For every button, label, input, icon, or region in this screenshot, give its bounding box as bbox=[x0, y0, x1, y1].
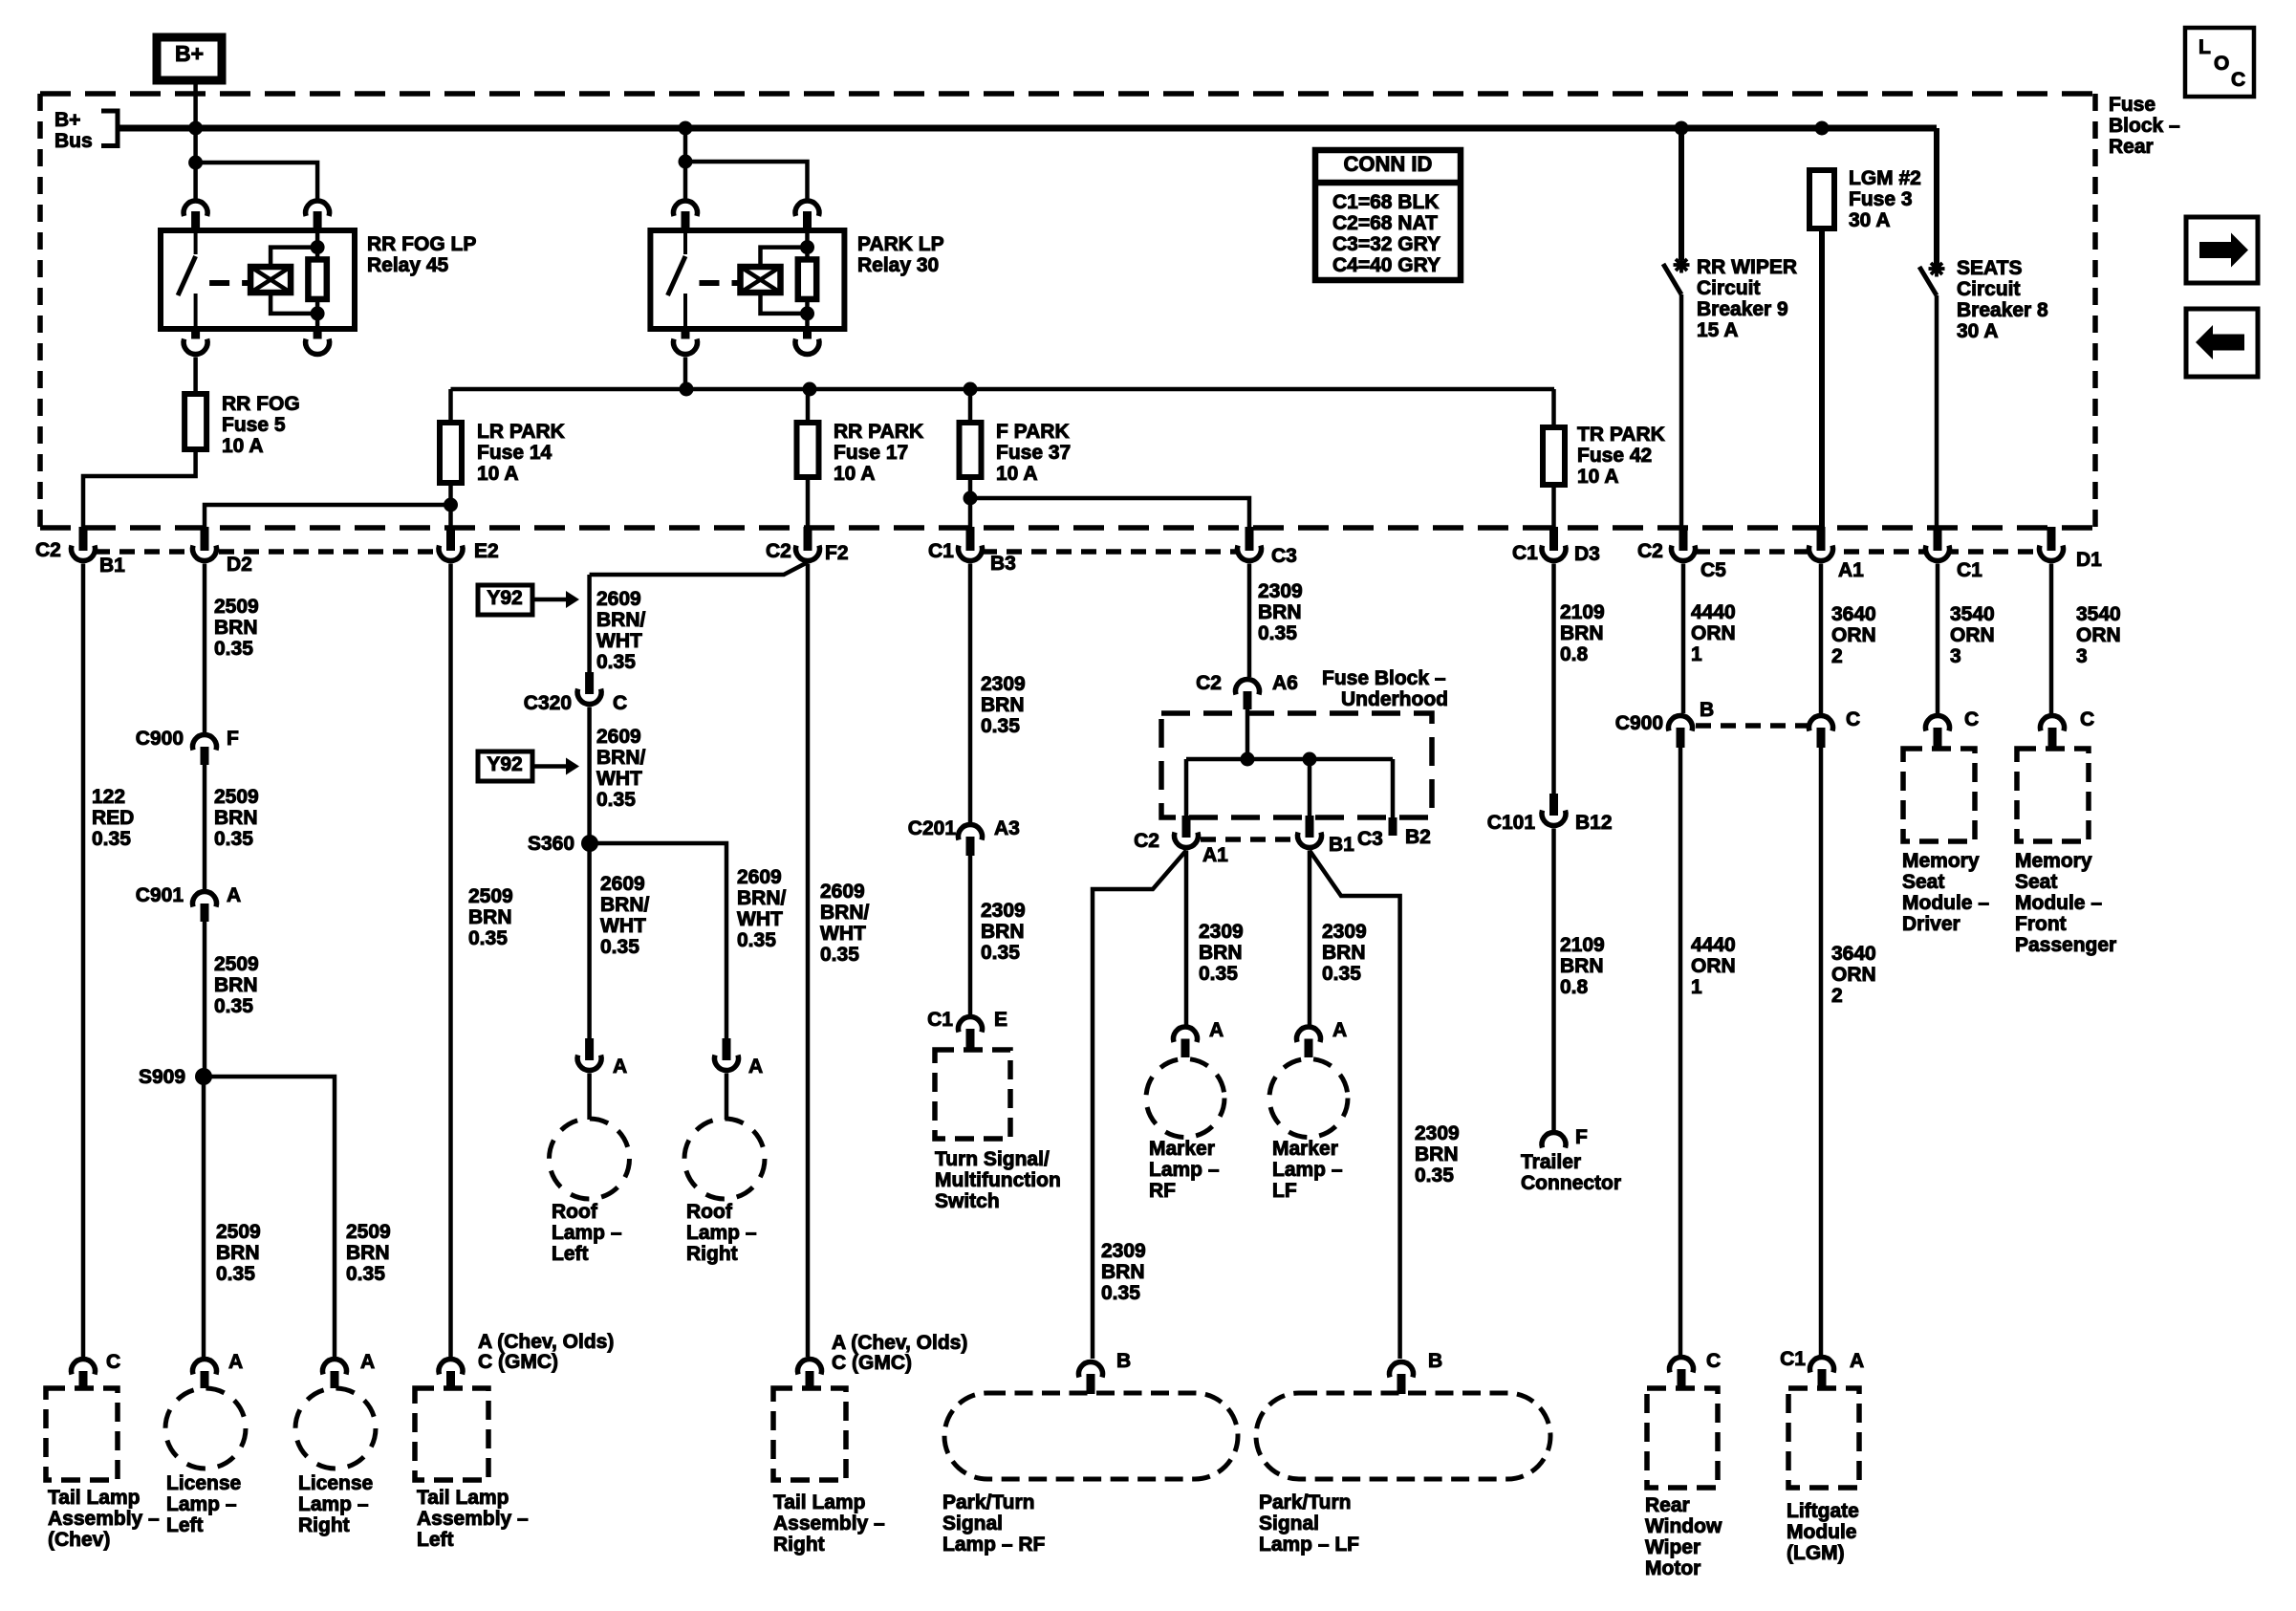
svg-text:BRN/: BRN/ bbox=[737, 887, 786, 909]
svg-text:C1=68 BLK: C1=68 BLK bbox=[1332, 191, 1439, 213]
svg-text:B1: B1 bbox=[1329, 834, 1354, 856]
svg-text:2509: 2509 bbox=[468, 885, 513, 907]
svg-text:LF: LF bbox=[1272, 1180, 1297, 1202]
svg-text:0.8: 0.8 bbox=[1560, 976, 1589, 998]
svg-text:2: 2 bbox=[1831, 985, 1843, 1007]
svg-text:2609: 2609 bbox=[596, 726, 641, 748]
svg-text:Lamp –: Lamp – bbox=[1149, 1159, 1220, 1181]
svg-text:Liftgate: Liftgate bbox=[1787, 1500, 1859, 1522]
svg-text:ORN: ORN bbox=[1831, 964, 1876, 986]
svg-text:2509: 2509 bbox=[214, 953, 259, 975]
svg-text:F2: F2 bbox=[825, 542, 849, 564]
svg-text:Right: Right bbox=[773, 1534, 825, 1556]
svg-text:C: C bbox=[2231, 69, 2245, 91]
svg-text:2: 2 bbox=[1831, 645, 1843, 667]
svg-text:2309: 2309 bbox=[981, 900, 1026, 922]
svg-text:S360: S360 bbox=[528, 833, 574, 855]
svg-text:0.35: 0.35 bbox=[1101, 1282, 1140, 1304]
svg-text:ORN: ORN bbox=[1950, 624, 1995, 646]
svg-text:BRN: BRN bbox=[468, 906, 512, 928]
svg-text:C1: C1 bbox=[1780, 1348, 1806, 1370]
svg-text:B: B bbox=[1700, 699, 1714, 721]
svg-text:3: 3 bbox=[2076, 645, 2088, 667]
svg-text:RR FOG: RR FOG bbox=[222, 393, 300, 415]
svg-text:B+: B+ bbox=[54, 109, 80, 131]
svg-text:2309: 2309 bbox=[1415, 1122, 1460, 1144]
svg-text:0.35: 0.35 bbox=[820, 944, 859, 966]
svg-text:Front: Front bbox=[2015, 913, 2067, 935]
svg-text:L: L bbox=[2199, 36, 2211, 58]
svg-text:Relay 30: Relay 30 bbox=[857, 254, 939, 276]
svg-text:3: 3 bbox=[1950, 645, 1961, 667]
svg-text:WHT: WHT bbox=[600, 915, 646, 937]
svg-text:C: C bbox=[2080, 708, 2094, 730]
svg-text:O: O bbox=[2214, 53, 2229, 75]
svg-text:Module –: Module – bbox=[2015, 892, 2102, 914]
svg-text:Assembly –: Assembly – bbox=[417, 1508, 529, 1530]
svg-text:Rear: Rear bbox=[2109, 136, 2154, 158]
svg-text:Motor: Motor bbox=[1645, 1557, 1700, 1579]
svg-text:2509: 2509 bbox=[216, 1221, 261, 1243]
svg-text:Module: Module bbox=[1787, 1521, 1857, 1543]
svg-text:10 A: 10 A bbox=[996, 463, 1038, 485]
svg-text:Fuse 14: Fuse 14 bbox=[477, 442, 552, 464]
svg-text:B12: B12 bbox=[1575, 812, 1613, 834]
svg-text:Switch: Switch bbox=[935, 1190, 1000, 1212]
svg-text:CONN ID: CONN ID bbox=[1344, 152, 1433, 176]
svg-text:0.35: 0.35 bbox=[600, 936, 639, 958]
svg-text:3640: 3640 bbox=[1831, 943, 1876, 965]
svg-text:C1: C1 bbox=[1512, 542, 1538, 564]
svg-text:E2: E2 bbox=[474, 540, 499, 562]
svg-text:Block –: Block – bbox=[2109, 115, 2180, 137]
svg-text:Breaker 8: Breaker 8 bbox=[1957, 299, 2048, 321]
svg-text:2509: 2509 bbox=[214, 596, 259, 618]
svg-text:BRN: BRN bbox=[216, 1242, 260, 1264]
svg-text:A: A bbox=[1209, 1019, 1224, 1041]
svg-text:2309: 2309 bbox=[1199, 921, 1244, 943]
svg-text:Memory: Memory bbox=[1902, 850, 1980, 872]
svg-text:PARK LP: PARK LP bbox=[857, 233, 944, 255]
svg-text:C1: C1 bbox=[1957, 559, 1982, 581]
svg-text:Park/Turn: Park/Turn bbox=[942, 1491, 1034, 1513]
svg-text:0.35: 0.35 bbox=[92, 828, 131, 850]
svg-text:BRN: BRN bbox=[1322, 942, 1366, 964]
svg-text:2309: 2309 bbox=[981, 673, 1026, 695]
svg-text:B2: B2 bbox=[1405, 826, 1431, 848]
svg-text:WHT: WHT bbox=[596, 768, 642, 790]
svg-text:30 A: 30 A bbox=[1849, 209, 1891, 231]
svg-text:3640: 3640 bbox=[1831, 603, 1876, 625]
svg-text:A: A bbox=[1850, 1350, 1864, 1372]
svg-text:0.35: 0.35 bbox=[1415, 1165, 1454, 1186]
svg-text:BRN/: BRN/ bbox=[596, 609, 645, 631]
svg-text:Circuit: Circuit bbox=[1957, 278, 2021, 300]
svg-text:B: B bbox=[1428, 1350, 1442, 1372]
svg-text:S909: S909 bbox=[139, 1066, 185, 1088]
svg-text:2609: 2609 bbox=[737, 866, 782, 888]
svg-text:F: F bbox=[227, 728, 239, 750]
svg-text:Window: Window bbox=[1645, 1515, 1722, 1537]
svg-text:1: 1 bbox=[1691, 643, 1702, 665]
svg-text:(Chev): (Chev) bbox=[48, 1529, 110, 1551]
svg-text:2509: 2509 bbox=[346, 1221, 391, 1243]
svg-text:SEATS: SEATS bbox=[1957, 257, 2022, 279]
svg-text:Memory: Memory bbox=[2015, 850, 2092, 872]
svg-text:E: E bbox=[994, 1009, 1007, 1031]
svg-text:BRN: BRN bbox=[346, 1242, 390, 1264]
svg-text:Roof: Roof bbox=[552, 1201, 598, 1223]
svg-text:WHT: WHT bbox=[737, 908, 783, 930]
svg-text:B3: B3 bbox=[990, 553, 1016, 575]
svg-text:A3: A3 bbox=[994, 817, 1020, 839]
svg-text:2309: 2309 bbox=[1258, 580, 1303, 602]
svg-text:2309: 2309 bbox=[1322, 921, 1367, 943]
svg-text:Tail Lamp: Tail Lamp bbox=[417, 1487, 509, 1509]
svg-text:C: C bbox=[1846, 708, 1860, 730]
svg-text:10 A: 10 A bbox=[222, 435, 264, 457]
svg-text:Marker: Marker bbox=[1272, 1138, 1338, 1160]
svg-text:10 A: 10 A bbox=[1577, 466, 1619, 488]
svg-text:Assembly –: Assembly – bbox=[48, 1508, 160, 1530]
svg-text:3540: 3540 bbox=[1950, 603, 1995, 625]
svg-text:Lamp – RF: Lamp – RF bbox=[942, 1534, 1046, 1556]
svg-text:10 A: 10 A bbox=[834, 463, 876, 485]
svg-text:Left: Left bbox=[417, 1529, 454, 1551]
svg-text:D3: D3 bbox=[1574, 543, 1600, 565]
svg-text:Fuse 42: Fuse 42 bbox=[1577, 445, 1652, 467]
svg-text:Driver: Driver bbox=[1902, 913, 1960, 935]
svg-text:0.35: 0.35 bbox=[596, 789, 636, 811]
svg-text:Tail Lamp: Tail Lamp bbox=[48, 1487, 140, 1509]
svg-text:0.35: 0.35 bbox=[981, 942, 1020, 964]
svg-text:Rear: Rear bbox=[1645, 1494, 1690, 1516]
svg-text:ORN: ORN bbox=[2076, 624, 2121, 646]
svg-text:Lamp –: Lamp – bbox=[1272, 1159, 1343, 1181]
svg-text:A: A bbox=[227, 884, 241, 906]
svg-text:A: A bbox=[613, 1056, 627, 1078]
svg-text:Fuse 37: Fuse 37 bbox=[996, 442, 1071, 464]
svg-text:Left: Left bbox=[166, 1514, 204, 1536]
svg-text:C201: C201 bbox=[908, 817, 957, 839]
svg-text:BRN: BRN bbox=[1560, 955, 1604, 977]
svg-text:BRN: BRN bbox=[214, 807, 258, 829]
svg-text:A1: A1 bbox=[1202, 844, 1228, 866]
svg-text:B+: B+ bbox=[175, 41, 204, 66]
svg-text:2609: 2609 bbox=[600, 873, 645, 895]
svg-text:Seat: Seat bbox=[1902, 871, 1944, 893]
svg-text:0.35: 0.35 bbox=[214, 995, 253, 1017]
svg-text:C3: C3 bbox=[1271, 545, 1297, 567]
svg-text:Y92: Y92 bbox=[487, 587, 522, 609]
svg-text:Turn Signal/: Turn Signal/ bbox=[935, 1148, 1050, 1170]
svg-text:BRN: BRN bbox=[1199, 942, 1243, 964]
svg-text:ORN: ORN bbox=[1691, 955, 1736, 977]
svg-text:0.35: 0.35 bbox=[346, 1263, 385, 1285]
svg-text:Fuse: Fuse bbox=[2109, 94, 2155, 116]
svg-text:B: B bbox=[1116, 1350, 1131, 1372]
svg-text:30 A: 30 A bbox=[1957, 320, 1999, 342]
svg-text:RF: RF bbox=[1149, 1180, 1176, 1202]
svg-text:Signal: Signal bbox=[1259, 1513, 1319, 1535]
svg-text:BRN: BRN bbox=[981, 921, 1025, 943]
svg-text:A: A bbox=[1332, 1019, 1347, 1041]
svg-text:Lamp –: Lamp – bbox=[298, 1493, 369, 1515]
svg-text:Lamp –: Lamp – bbox=[552, 1222, 622, 1244]
svg-text:Marker: Marker bbox=[1149, 1138, 1215, 1160]
svg-text:A1: A1 bbox=[1838, 559, 1864, 581]
svg-text:0.35: 0.35 bbox=[214, 638, 253, 660]
svg-text:C3=32 GRY: C3=32 GRY bbox=[1332, 233, 1440, 255]
svg-text:TR PARK: TR PARK bbox=[1577, 424, 1665, 446]
svg-text:2109: 2109 bbox=[1560, 601, 1605, 623]
svg-text:BRN: BRN bbox=[214, 974, 258, 996]
svg-text:License: License bbox=[166, 1472, 241, 1494]
svg-text:C2: C2 bbox=[35, 539, 61, 561]
svg-text:0.35: 0.35 bbox=[214, 828, 253, 850]
svg-text:C5: C5 bbox=[1700, 559, 1726, 581]
svg-text:A6: A6 bbox=[1272, 672, 1298, 694]
svg-text:Left: Left bbox=[552, 1243, 589, 1265]
svg-text:BRN: BRN bbox=[1415, 1143, 1459, 1165]
svg-text:Trailer: Trailer bbox=[1521, 1151, 1581, 1173]
svg-text:Lamp – LF: Lamp – LF bbox=[1259, 1534, 1359, 1556]
svg-text:Passenger: Passenger bbox=[2015, 934, 2116, 956]
svg-text:Bus: Bus bbox=[54, 130, 93, 152]
svg-text:BRN: BRN bbox=[1258, 601, 1302, 623]
svg-text:D1: D1 bbox=[2076, 549, 2102, 571]
svg-text:LGM #2: LGM #2 bbox=[1849, 167, 1921, 189]
svg-text:C (GMC): C (GMC) bbox=[832, 1352, 912, 1374]
svg-text:Circuit: Circuit bbox=[1697, 277, 1761, 299]
svg-text:Fuse 17: Fuse 17 bbox=[834, 442, 908, 464]
svg-text:Underhood: Underhood bbox=[1341, 688, 1448, 710]
svg-text:C2: C2 bbox=[1637, 540, 1663, 562]
svg-text:Right: Right bbox=[298, 1514, 350, 1536]
svg-text:A: A bbox=[360, 1351, 375, 1373]
svg-text:2609: 2609 bbox=[820, 881, 865, 903]
svg-text:(LGM): (LGM) bbox=[1787, 1542, 1845, 1564]
svg-text:C3: C3 bbox=[1357, 828, 1383, 850]
svg-text:Y92: Y92 bbox=[487, 753, 522, 775]
svg-text:Connector: Connector bbox=[1521, 1172, 1621, 1194]
svg-text:C320: C320 bbox=[524, 692, 572, 714]
svg-text:C1: C1 bbox=[928, 540, 954, 562]
svg-text:4440: 4440 bbox=[1691, 601, 1736, 623]
svg-text:3540: 3540 bbox=[2076, 603, 2121, 625]
svg-text:WHT: WHT bbox=[596, 630, 642, 652]
svg-text:BRN: BRN bbox=[981, 694, 1025, 716]
svg-text:0.35: 0.35 bbox=[596, 651, 636, 673]
svg-text:Right: Right bbox=[686, 1243, 738, 1265]
svg-text:Seat: Seat bbox=[2015, 871, 2057, 893]
svg-text:0.8: 0.8 bbox=[1560, 643, 1589, 665]
svg-text:F: F bbox=[1575, 1126, 1588, 1148]
svg-text:RR PARK: RR PARK bbox=[834, 421, 923, 443]
svg-text:Lamp –: Lamp – bbox=[686, 1222, 757, 1244]
svg-text:RR WIPER: RR WIPER bbox=[1697, 256, 1797, 278]
svg-text:1: 1 bbox=[1691, 976, 1702, 998]
svg-text:Fuse Block –: Fuse Block – bbox=[1322, 667, 1446, 689]
svg-text:C4=40 GRY: C4=40 GRY bbox=[1332, 254, 1440, 276]
svg-text:C101: C101 bbox=[1487, 812, 1536, 834]
svg-text:0.35: 0.35 bbox=[737, 929, 776, 951]
svg-text:0.35: 0.35 bbox=[1258, 622, 1297, 644]
svg-text:Relay 45: Relay 45 bbox=[367, 254, 449, 276]
svg-text:C900: C900 bbox=[136, 728, 184, 750]
svg-text:4440: 4440 bbox=[1691, 934, 1736, 956]
svg-text:ORN: ORN bbox=[1691, 622, 1736, 644]
svg-text:10 A: 10 A bbox=[477, 463, 519, 485]
svg-text:Fuse 5: Fuse 5 bbox=[222, 414, 286, 436]
svg-text:2609: 2609 bbox=[596, 588, 641, 610]
svg-text:C2: C2 bbox=[766, 540, 791, 562]
svg-text:Lamp –: Lamp – bbox=[166, 1493, 237, 1515]
svg-text:BRN/: BRN/ bbox=[820, 902, 869, 924]
svg-text:BRN/: BRN/ bbox=[596, 747, 645, 769]
svg-text:122: 122 bbox=[92, 786, 125, 808]
svg-text:BRN: BRN bbox=[1560, 622, 1604, 644]
svg-text:0.35: 0.35 bbox=[216, 1263, 255, 1285]
svg-text:Wiper: Wiper bbox=[1645, 1536, 1700, 1558]
svg-text:0.35: 0.35 bbox=[981, 715, 1020, 737]
svg-text:ORN: ORN bbox=[1831, 624, 1876, 646]
svg-text:License: License bbox=[298, 1472, 373, 1494]
svg-text:RR FOG LP: RR FOG LP bbox=[367, 233, 476, 255]
svg-text:2509: 2509 bbox=[214, 786, 259, 808]
svg-text:Roof: Roof bbox=[686, 1201, 733, 1223]
svg-text:Tail Lamp: Tail Lamp bbox=[773, 1491, 865, 1513]
svg-text:15 A: 15 A bbox=[1697, 319, 1739, 341]
svg-text:D2: D2 bbox=[227, 554, 252, 576]
svg-text:2309: 2309 bbox=[1101, 1240, 1146, 1262]
svg-text:Assembly –: Assembly – bbox=[773, 1513, 885, 1535]
svg-text:C: C bbox=[613, 692, 627, 714]
svg-text:Fuse 3: Fuse 3 bbox=[1849, 188, 1913, 210]
svg-text:A (Chev, Olds): A (Chev, Olds) bbox=[832, 1332, 967, 1354]
svg-text:Signal: Signal bbox=[942, 1513, 1003, 1535]
svg-text:C901: C901 bbox=[136, 884, 184, 906]
svg-text:0.35: 0.35 bbox=[1322, 963, 1361, 985]
svg-text:0.35: 0.35 bbox=[1199, 963, 1238, 985]
svg-text:2109: 2109 bbox=[1560, 934, 1605, 956]
svg-text:C (GMC): C (GMC) bbox=[478, 1351, 558, 1373]
svg-text:C: C bbox=[1706, 1350, 1721, 1372]
svg-text:C: C bbox=[106, 1351, 120, 1373]
svg-text:Multifunction: Multifunction bbox=[935, 1169, 1061, 1191]
svg-text:WHT: WHT bbox=[820, 923, 866, 945]
svg-text:C: C bbox=[1964, 708, 1979, 730]
svg-text:C2=68 NAT: C2=68 NAT bbox=[1332, 212, 1438, 234]
svg-text:RED: RED bbox=[92, 807, 134, 829]
svg-text:BRN: BRN bbox=[1101, 1261, 1145, 1283]
svg-text:C2: C2 bbox=[1134, 830, 1159, 852]
svg-text:C900: C900 bbox=[1615, 712, 1663, 734]
svg-text:0.35: 0.35 bbox=[468, 927, 508, 949]
svg-text:Module –: Module – bbox=[1902, 892, 1989, 914]
svg-text:F PARK: F PARK bbox=[996, 421, 1070, 443]
svg-text:Park/Turn: Park/Turn bbox=[1259, 1491, 1351, 1513]
svg-text:A: A bbox=[748, 1056, 763, 1078]
svg-text:LR PARK: LR PARK bbox=[477, 421, 565, 443]
svg-text:B1: B1 bbox=[99, 555, 125, 577]
svg-text:C2: C2 bbox=[1196, 672, 1222, 694]
svg-text:Breaker 9: Breaker 9 bbox=[1697, 298, 1788, 320]
svg-text:C1: C1 bbox=[927, 1009, 953, 1031]
svg-text:A (Chev, Olds): A (Chev, Olds) bbox=[478, 1331, 614, 1353]
svg-text:BRN/: BRN/ bbox=[600, 894, 649, 916]
svg-text:BRN: BRN bbox=[214, 617, 258, 639]
svg-text:A: A bbox=[228, 1351, 243, 1373]
